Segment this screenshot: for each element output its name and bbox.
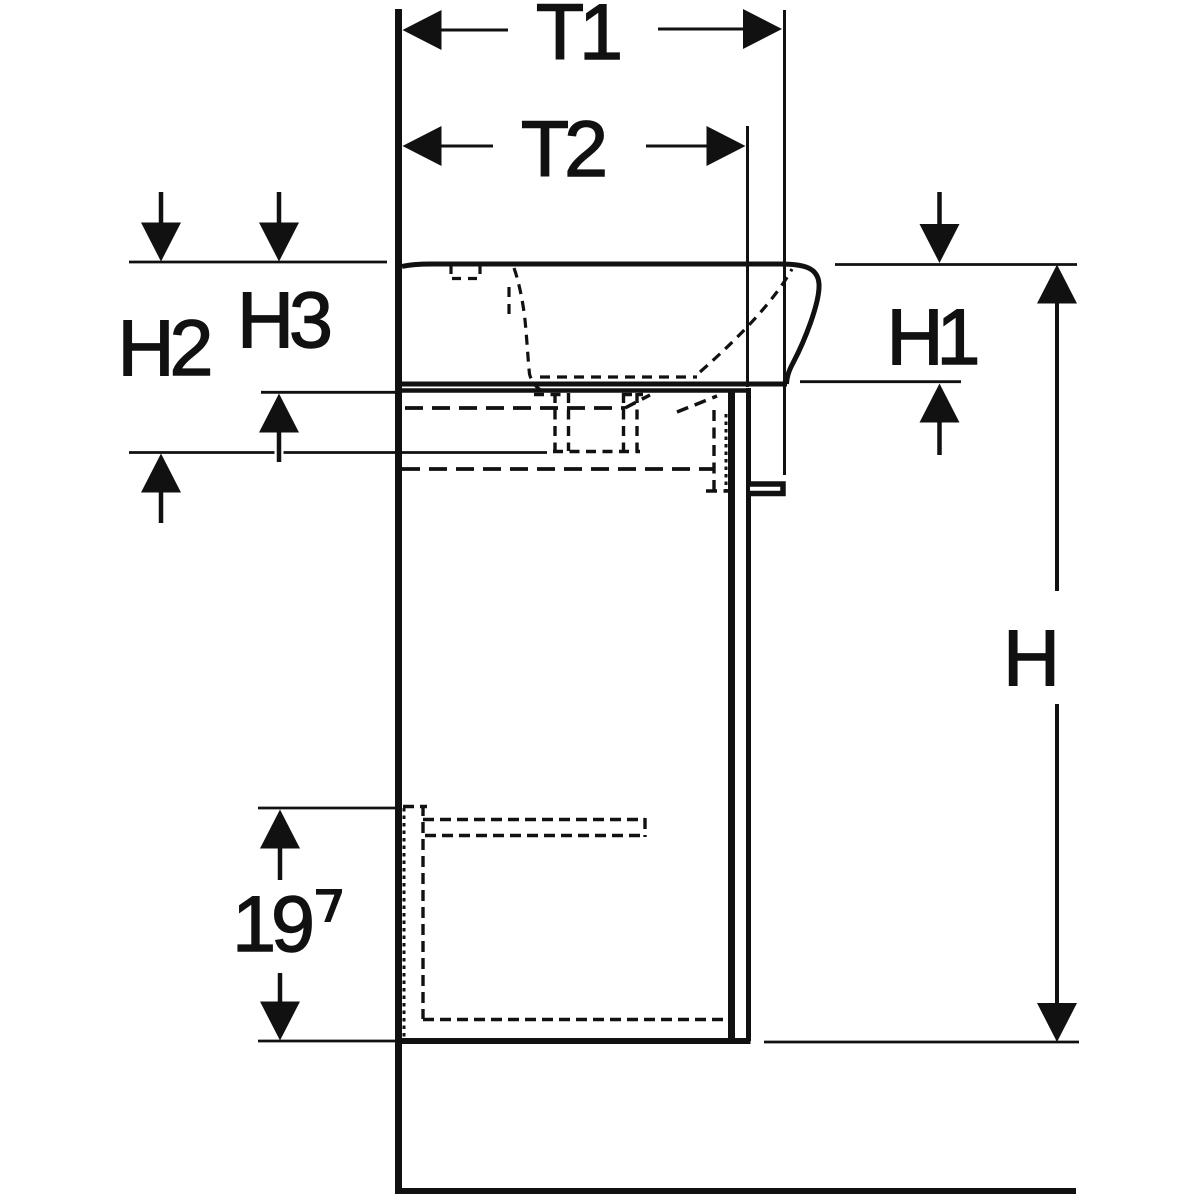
- H2 up arrow: [141, 454, 181, 493]
- H2 lower reference line segment b: [284, 451, 548, 454]
- H2 down arrow: [141, 223, 181, 262]
- washbasin bottom: [402, 382, 787, 387]
- tap hole dashed bottom: [452, 277, 479, 280]
- door inner dotted vertical: [725, 414, 728, 491]
- drawer front dashed vertical: [421, 805, 424, 1019]
- siphon inner right dashed: [622, 393, 625, 451]
- bowl left dashed curve: [514, 268, 548, 394]
- H2 down arrow stem: [159, 192, 164, 226]
- bowl underside dashed diagonal right: [677, 396, 717, 412]
- cabinet top: [402, 388, 750, 393]
- svg-text:H3: H3: [237, 275, 330, 364]
- upper reference line right: [835, 263, 1077, 266]
- H dimension line lower: [1055, 704, 1059, 1005]
- T2 extension line: [746, 126, 749, 387]
- siphon bottom dashed: [553, 450, 640, 453]
- cabinet inner side dashed vertical: [712, 410, 715, 491]
- H3 down arrow: [259, 223, 299, 262]
- floor line: [399, 1188, 1076, 1194]
- 19 down arrow stem: [278, 973, 283, 1003]
- dimension T1 right tail: [658, 28, 744, 31]
- siphon top dash left: [534, 393, 566, 396]
- siphon outer right dashed: [635, 393, 638, 453]
- H1 up arrow stem: [937, 420, 942, 455]
- siphon outer left dashed: [553, 393, 556, 453]
- upper reference line left: [129, 261, 387, 264]
- dimension T2 right tail: [646, 145, 707, 148]
- svg-text:H1: H1: [887, 292, 978, 381]
- H dimension top arrow: [1037, 265, 1077, 304]
- siphon inner left dashed: [567, 393, 570, 451]
- H3 up arrow stem: [277, 430, 282, 462]
- svg-text:H2: H2: [118, 303, 210, 392]
- drawer rail dashed top: [423, 818, 645, 821]
- cabinet carcass front: [728, 390, 735, 1041]
- T1 extension line: [783, 10, 786, 475]
- drawer back dotted vertical: [403, 808, 406, 1038]
- front bracket protrusion: [750, 484, 783, 494]
- H3 down arrow stem: [277, 192, 282, 226]
- cabinet bottom: [402, 1038, 751, 1044]
- washbasin top surface: [402, 264, 819, 384]
- dimension T1 right arrow: [743, 9, 782, 49]
- drawer rail dashed bottom: [425, 834, 645, 837]
- cabinet door front: [746, 388, 751, 1041]
- H3 lower reference line: [261, 391, 395, 394]
- 19 dimension upper reference line: [258, 807, 402, 810]
- wall: [395, 9, 402, 1194]
- 19 up arrow stem: [278, 846, 283, 880]
- bowl right dashed curve: [700, 269, 792, 372]
- svg-text:19: 19: [232, 879, 312, 968]
- drawer top dashed connector: [403, 805, 427, 808]
- dimension T2 right arrow: [707, 126, 746, 166]
- drawer rail dashed right: [643, 818, 646, 837]
- H1 down arrow stem: [937, 192, 942, 226]
- svg-text:T2: T2: [521, 104, 604, 193]
- H1 up arrow: [920, 384, 960, 423]
- cabinet inner top dashed: [405, 406, 625, 410]
- tap hole dashed vertical right: [478, 266, 481, 274]
- dimension T2 line left tail: [441, 145, 493, 148]
- H dimension bottom arrow: [1037, 1003, 1077, 1042]
- 19 lower reference line: [258, 1040, 399, 1043]
- inner bottom dashed connector: [706, 489, 728, 492]
- H3 up arrow: [259, 394, 299, 433]
- H1 down arrow: [920, 224, 960, 263]
- overflow dashed vertical: [507, 287, 510, 318]
- tap hole dashed vertical left: [449, 266, 452, 274]
- 19 superscript 7: [316, 889, 342, 922]
- svg-text:T1: T1: [536, 0, 620, 76]
- dimension T2 left arrow: [403, 126, 442, 166]
- H2 lower reference line segment a: [129, 451, 275, 454]
- bowl bottom dashed: [540, 375, 697, 378]
- 19 down arrow: [260, 1002, 300, 1041]
- dimension T1 line left tail: [441, 29, 508, 32]
- H dimension line upper: [1055, 301, 1059, 591]
- dimension T1 left arrow: [403, 10, 442, 50]
- H1 lower reference line: [800, 380, 961, 383]
- drawer bottom dashed: [423, 1018, 723, 1021]
- siphon top dash right: [622, 393, 643, 396]
- H2 up arrow stem: [159, 490, 164, 523]
- 19 up arrow: [260, 810, 300, 849]
- svg-text:H: H: [1003, 613, 1055, 702]
- H lower reference line: [764, 1041, 1079, 1044]
- cabinet inner shelf dashed: [402, 467, 714, 471]
- bowl underside dashed diagonal left: [625, 395, 650, 408]
